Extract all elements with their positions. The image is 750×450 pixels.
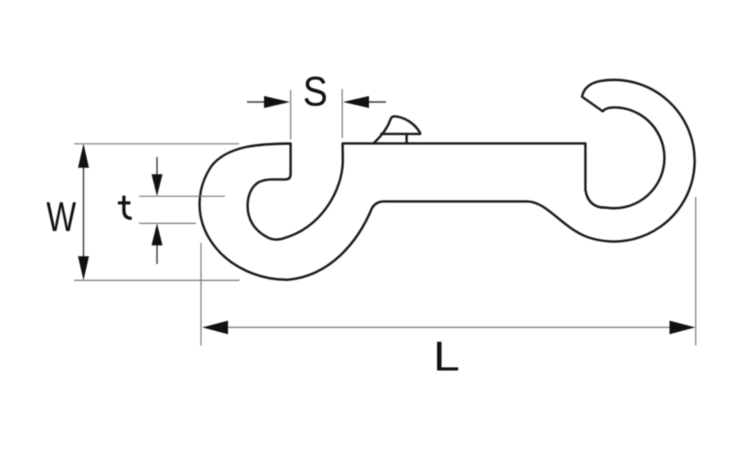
- W bottom ext: [74, 279, 240, 281]
- S right ext: [341, 89, 343, 138]
- snap hook body outline: [200, 80, 695, 280]
- svg-text:W: W: [46, 193, 76, 241]
- svg-text:S: S: [303, 69, 328, 115]
- S left arrow shaft: [247, 101, 268, 103]
- t lower line: [139, 222, 196, 224]
- S left ext: [290, 90, 292, 140]
- W dim shaft: [83, 146, 85, 277]
- svg-text:L: L: [433, 333, 460, 380]
- t upper line: [139, 195, 225, 197]
- trigger fin: [374, 116, 420, 142]
- L right ext: [695, 197, 697, 346]
- W up arrowhead: [78, 144, 89, 168]
- t up-arrow shaft: [156, 242, 158, 264]
- W top ext: [74, 143, 239, 145]
- arrowheads (black): [78, 96, 695, 334]
- L right arrowhead: [670, 321, 696, 335]
- t down-arrow shaft: [156, 157, 158, 178]
- trigger stem: [405, 134, 407, 143]
- t up arrowhead: [152, 223, 163, 245]
- S right arrow shaft: [367, 101, 386, 103]
- L left ext: [200, 243, 202, 346]
- L left arrowhead: [203, 321, 229, 335]
- L dim shaft: [203, 326, 694, 328]
- S right-pointing arrowhead: [264, 96, 290, 108]
- dimension extension lines (gray): [74, 89, 696, 346]
- W down arrowhead: [78, 256, 89, 280]
- t down arrowhead: [152, 174, 163, 196]
- label t: [118, 196, 132, 219]
- arrow shafts (darker): [84, 102, 387, 277]
- S left-pointing arrowhead: [343, 96, 369, 108]
